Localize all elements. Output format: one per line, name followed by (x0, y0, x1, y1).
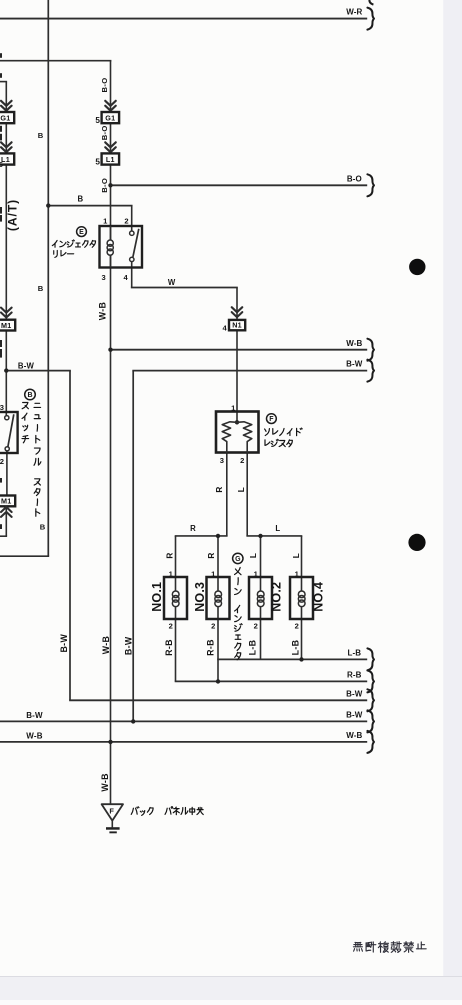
svg-text:W-B: W-B (101, 636, 111, 654)
svg-text:L-B: L-B (290, 640, 300, 656)
svg-text:B: B (27, 392, 32, 399)
svg-text:L-B: L-B (247, 640, 257, 656)
svg-text:W-R: W-R (346, 8, 362, 17)
svg-text:3: 3 (101, 273, 105, 282)
svg-text:M1: M1 (1, 321, 12, 330)
svg-text:(A/T): (A/T) (6, 199, 20, 231)
svg-text:5: 5 (0, 160, 3, 169)
svg-text:E: E (79, 229, 84, 236)
svg-text:B-W: B-W (123, 636, 133, 655)
svg-text:5: 5 (95, 116, 100, 125)
svg-text:G: G (235, 556, 241, 563)
svg-text:NO.1: NO.1 (150, 582, 164, 612)
svg-text:L: L (237, 487, 246, 492)
svg-text:R: R (215, 486, 224, 492)
svg-text:2: 2 (211, 622, 215, 631)
svg-text:R: R (190, 524, 196, 533)
svg-text:W-B: W-B (346, 339, 362, 348)
svg-text:M1: M1 (1, 497, 12, 506)
svg-text:B-W: B-W (59, 634, 69, 653)
svg-text:2: 2 (0, 457, 4, 466)
svg-text:L: L (275, 524, 280, 533)
svg-text:R: R (207, 552, 216, 558)
svg-text:B-W: B-W (18, 361, 35, 370)
svg-text:B-W: B-W (346, 711, 363, 720)
svg-text:W-B: W-B (100, 773, 110, 791)
svg-text:W-B: W-B (98, 302, 108, 320)
svg-text:R-B: R-B (164, 639, 174, 656)
svg-text:5: 5 (95, 157, 100, 166)
svg-text:B: B (38, 131, 44, 140)
svg-text:3: 3 (220, 456, 224, 465)
svg-text:B-O: B-O (100, 178, 109, 193)
svg-text:W-B: W-B (346, 731, 362, 740)
svg-text:W-B: W-B (26, 732, 42, 741)
svg-text:W: W (168, 278, 176, 287)
svg-text:B: B (38, 284, 44, 293)
svg-text:R: R (166, 552, 175, 558)
svg-text:2: 2 (254, 622, 258, 631)
svg-text:G1: G1 (105, 114, 115, 123)
svg-text:L: L (249, 553, 258, 558)
svg-text:2: 2 (295, 622, 299, 631)
svg-text:F: F (109, 807, 114, 816)
svg-text:NO.4: NO.4 (312, 582, 326, 612)
svg-text:B-O: B-O (100, 125, 109, 140)
svg-text:B-O: B-O (100, 78, 109, 93)
svg-text:L-B: L-B (347, 649, 361, 658)
svg-text:3: 3 (0, 403, 4, 412)
svg-text:NO.2: NO.2 (269, 582, 283, 612)
svg-text:B: B (77, 195, 83, 204)
svg-text:2: 2 (169, 622, 173, 631)
svg-text:R-B: R-B (347, 671, 362, 680)
svg-text:2: 2 (124, 216, 128, 225)
svg-text:B: B (40, 523, 46, 532)
svg-text:R-B: R-B (205, 639, 215, 656)
svg-text:N1: N1 (232, 321, 242, 330)
svg-text:2: 2 (240, 456, 244, 465)
svg-text:B-W: B-W (346, 360, 363, 369)
svg-text:NO.3: NO.3 (193, 582, 207, 612)
svg-text:F: F (269, 416, 274, 423)
svg-text:B-O: B-O (347, 174, 362, 183)
svg-text:L: L (292, 553, 301, 558)
svg-text:B-W: B-W (346, 689, 363, 698)
svg-text:B-W: B-W (26, 711, 43, 720)
svg-text:G1: G1 (0, 114, 10, 123)
svg-text:L1: L1 (106, 155, 115, 164)
